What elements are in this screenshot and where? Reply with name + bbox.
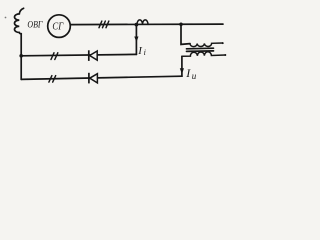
svg-text:и: и xyxy=(192,71,197,81)
svg-text:i: i xyxy=(144,48,146,57)
svg-text:СГ: СГ xyxy=(52,22,64,33)
svg-text:ОВГ: ОВГ xyxy=(27,19,42,30)
